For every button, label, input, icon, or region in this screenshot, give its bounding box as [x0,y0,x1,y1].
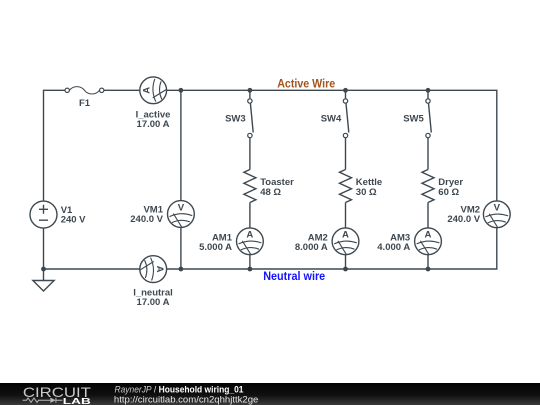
svg-text:RaynerJP / Household wiring_01: RaynerJP / Household wiring_01 [115,385,244,395]
svg-text:LAB: LAB [63,396,91,405]
svg-text:Active Wire: Active Wire [277,79,335,91]
svg-text:240.0 V: 240.0 V [130,214,163,225]
svg-text:17.00 A: 17.00 A [137,297,170,308]
svg-text:4.000 A: 4.000 A [377,242,410,253]
svg-text:SW5: SW5 [403,114,424,125]
svg-text:48 Ω: 48 Ω [260,187,281,198]
svg-text:SW3: SW3 [225,114,246,125]
svg-text:240 V: 240 V [61,214,86,225]
svg-text:240.0 V: 240.0 V [447,214,480,225]
svg-text:30 Ω: 30 Ω [356,187,377,198]
svg-text:http://circuitlab.com/cn2qhhjt: http://circuitlab.com/cn2qhhjttk2ge [114,394,259,404]
svg-text:SW4: SW4 [321,114,342,125]
svg-text:60 Ω: 60 Ω [438,187,459,198]
svg-text:17.00 A: 17.00 A [137,119,170,130]
svg-text:5.000 A: 5.000 A [199,242,232,253]
svg-text:F1: F1 [79,98,91,109]
svg-text:Neutral wire: Neutral wire [263,271,325,283]
svg-text:8.000 A: 8.000 A [295,242,328,253]
